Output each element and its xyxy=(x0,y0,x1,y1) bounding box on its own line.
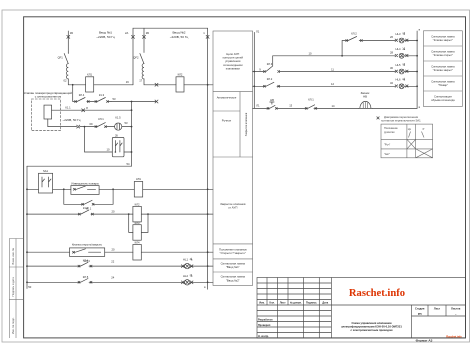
contact KL4b xyxy=(78,262,92,267)
switch SA1 box xyxy=(39,173,53,193)
svg-text:КЛ.4: КЛ.4 xyxy=(79,93,85,97)
contact KL4 xyxy=(75,98,90,103)
rung 252 xyxy=(27,251,70,253)
svg-text:К1.3: К1.3 xyxy=(99,93,105,97)
svg-text:Извещатель пожара: Извещатель пожара xyxy=(71,181,99,185)
svg-text:Разработал: Разработал xyxy=(258,318,273,321)
svg-text:53: 53 xyxy=(125,121,128,125)
svg-text:КЛ1: КЛ1 xyxy=(136,177,141,181)
wire to HL1 xyxy=(91,265,185,267)
svg-text:Raschet.info: Raschet.info xyxy=(349,288,405,299)
svg-text:Лист: Лист xyxy=(280,302,287,305)
function column dividers xyxy=(213,92,253,272)
svg-text:"Ввод №1": "Ввод №1" xyxy=(226,265,240,269)
wire KL2 to right bus xyxy=(184,84,213,86)
rung 282 lamp HL2 xyxy=(27,281,79,283)
svg-text:2Б: 2Б xyxy=(146,31,149,35)
wire to parallel coils xyxy=(93,213,132,215)
bus mid vertical xyxy=(131,102,133,167)
svg-text:Стадия: Стадия xyxy=(415,307,425,311)
svg-text:Кол.: Кол. xyxy=(270,302,276,305)
dashed valve enclosure xyxy=(31,99,60,131)
pushbutton box open-close xyxy=(70,248,105,257)
wire row1 to right bus xyxy=(143,188,213,190)
svg-text:КЛ2: КЛ2 xyxy=(135,203,140,207)
svg-text:Подпись: Подпись xyxy=(306,302,317,305)
svg-text:КЛ.2: КЛ.2 xyxy=(267,77,273,81)
terminal X input2 right xyxy=(206,35,209,38)
svg-text:32: 32 xyxy=(390,81,393,85)
wire QF2 stub xyxy=(143,28,145,52)
fire detector box xyxy=(71,186,99,195)
row D wire xyxy=(253,107,418,109)
svg-text:10: 10 xyxy=(309,52,312,56)
svg-text:Р: Р xyxy=(423,127,425,131)
svg-text:КЛ.1: КЛ.1 xyxy=(308,97,314,101)
terminal X rung126 xyxy=(77,125,80,128)
svg-text:HL5: HL5 xyxy=(396,63,401,67)
svg-text:"Открыто"/"закрыто": "Открыто"/"закрыто" xyxy=(220,251,246,255)
wire row top xyxy=(361,40,395,42)
lamp HL6 xyxy=(399,84,404,89)
svg-text:"Авт": "Авт" xyxy=(384,152,390,156)
wire row3 to right bus xyxy=(141,251,213,253)
svg-text:КЛ.1: КЛ.1 xyxy=(98,117,104,121)
svg-text:"Клапан закрыт": "Клапан закрыт" xyxy=(433,68,453,72)
svg-text:контактов переключателя SA1: контактов переключателя SA1 xyxy=(381,118,421,122)
solenoid coil YA1 xyxy=(44,105,52,119)
svg-text:Дата: Дата xyxy=(322,302,328,305)
svg-text:~220В, 50 Гц: ~220В, 50 Гц xyxy=(170,35,189,39)
parallel branch row2 xyxy=(129,214,148,232)
wire between contacts xyxy=(88,101,96,103)
self hold branch xyxy=(64,189,113,204)
terminal X QF2 xyxy=(143,35,146,38)
svg-text:SA1: SA1 xyxy=(43,169,49,173)
lamp HL1 xyxy=(185,263,190,268)
contact K1.3 xyxy=(95,98,111,103)
svg-text:10: 10 xyxy=(107,148,110,152)
svg-text:20: 20 xyxy=(112,247,115,251)
svg-text:Схема управления клапанами: Схема управления клапанами xyxy=(351,321,391,325)
svg-text:13: 13 xyxy=(289,103,292,107)
svg-text:"Ввод №2": "Ввод №2" xyxy=(226,278,240,282)
svg-text:QF1: QF1 xyxy=(58,56,64,60)
svg-text:КЛ.4: КЛ.4 xyxy=(83,259,89,263)
svg-text:HL6: HL6 xyxy=(396,78,401,82)
title block column lines xyxy=(267,278,446,339)
terminal X before KL2 xyxy=(155,83,158,86)
svg-text:Закрытие клапанов: Закрытие клапанов xyxy=(244,112,248,136)
wire HL3 to bus xyxy=(405,40,418,42)
svg-text:1Б: 1Б xyxy=(70,31,73,35)
svg-text:НВ: НВ xyxy=(270,98,274,102)
svg-text:QF2: QF2 xyxy=(133,56,139,60)
contact KL5 xyxy=(78,279,92,284)
rung 214 xyxy=(27,213,79,215)
svg-text:Raschet.info: Raschet.info xyxy=(446,334,462,338)
svg-text:26: 26 xyxy=(390,35,393,39)
rung 266 lamp HL1 xyxy=(27,265,79,267)
svg-text:№ докум.: № докум. xyxy=(290,302,302,305)
svg-text:30: 30 xyxy=(390,66,393,70)
svg-text:~220В, 50 Гц: ~220В, 50 Гц xyxy=(96,35,115,39)
pushbutton НВ xyxy=(267,102,277,109)
svg-text:Сигнальная лампа: Сигнальная лампа xyxy=(431,50,455,54)
relay coil row2b xyxy=(133,225,141,241)
svg-text:02: 02 xyxy=(64,79,67,83)
lamp HL3 xyxy=(399,38,404,43)
svg-text:Н. контр.: Н. контр. xyxy=(258,335,269,338)
X mark cell Авт xyxy=(416,149,433,158)
svg-text:09: 09 xyxy=(90,122,93,126)
wire row A xyxy=(273,55,396,57)
contact КЛ.2 row C xyxy=(253,82,280,87)
svg-text:от АУП: от АУП xyxy=(228,206,237,210)
junction dots right schematic xyxy=(253,71,255,73)
wire KL1 to bus xyxy=(94,84,133,86)
wire HL2 to bus xyxy=(190,281,213,283)
svg-text:РП: РП xyxy=(418,312,422,316)
svg-text:Ручное: Ручное xyxy=(222,118,232,122)
svg-text:"Руч": "Руч" xyxy=(384,142,390,146)
svg-text:HL1: HL1 xyxy=(183,258,188,262)
svg-text:с электромагнитом: с электромагнитом xyxy=(35,95,62,99)
terminal X input2 left xyxy=(132,35,135,38)
lamp HL2 xyxy=(185,280,190,285)
svg-text:16: 16 xyxy=(126,80,129,84)
svg-text:Изм.: Изм. xyxy=(259,302,265,305)
relay coil KL1 xyxy=(86,77,94,92)
wire rung 101 drop xyxy=(73,85,76,102)
svg-text:К1.2: К1.2 xyxy=(83,206,89,210)
svg-text:22: 22 xyxy=(111,260,114,264)
relay coil row3 xyxy=(133,245,141,261)
wire YA1 top to bus xyxy=(52,109,132,111)
contact KL1aux xyxy=(95,123,115,128)
wire input1 top stub xyxy=(67,31,69,53)
wire row C xyxy=(279,85,396,87)
terminal X below row D xyxy=(377,117,379,119)
relay coil row2a xyxy=(133,206,141,222)
svg-text:Проверил: Проверил xyxy=(258,324,271,327)
svg-text:Сигнализация: Сигнализация xyxy=(434,95,452,99)
svg-text:2К: 2К xyxy=(115,133,118,137)
svg-text:~220В, 50 Гц: ~220В, 50 Гц xyxy=(63,118,81,122)
svg-text:К1.5: К1.5 xyxy=(115,116,121,120)
wire detector to relay row1 xyxy=(99,188,134,190)
X mark cell Руч xyxy=(407,139,416,149)
svg-text:КЛ.2: КЛ.2 xyxy=(351,31,357,35)
return wire to left bus xyxy=(27,165,132,167)
left bus xyxy=(26,166,28,288)
svg-text:50: 50 xyxy=(28,285,31,289)
svg-text:28: 28 xyxy=(390,51,393,55)
svg-text:54: 54 xyxy=(127,162,130,166)
wire K1 to bus xyxy=(124,151,132,153)
svg-text:HL3: HL3 xyxy=(396,32,401,36)
lamp HL5 xyxy=(399,69,404,74)
svg-text:Кнопка открыть/закрыть: Кнопка открыть/закрыть xyxy=(72,243,103,247)
function column box xyxy=(213,31,253,285)
svg-text:"Клапан закрыт": "Клапан закрыт" xyxy=(433,38,453,42)
svg-text:КЛ1: КЛ1 xyxy=(87,72,92,76)
terminal X on wire 110 xyxy=(82,109,85,112)
SA1 diagram table xyxy=(381,124,433,158)
wire to HL2 xyxy=(91,281,185,283)
wire HL6 to bus xyxy=(405,85,418,87)
svg-text:20: 20 xyxy=(112,209,115,213)
wire K1.5 to bus xyxy=(122,126,132,128)
relay coil KL1 row1 xyxy=(134,182,142,198)
wire to contact xyxy=(80,126,96,128)
wire drop to K1 row xyxy=(85,127,113,152)
contact КЛ.3 marks xyxy=(263,71,279,73)
svg-text:17: 17 xyxy=(139,79,142,83)
svg-text:HL2: HL2 xyxy=(183,274,188,278)
breaker QF2 xyxy=(140,54,144,64)
junction dots left schematic xyxy=(72,84,74,86)
contact K1.2 xyxy=(78,210,93,215)
right annotation boxes xyxy=(424,31,463,107)
contact KL1 self-hold xyxy=(82,200,95,205)
coil L2 input2 xyxy=(142,64,144,79)
svg-text:Автоматическое: Автоматическое xyxy=(217,96,237,100)
right bus xyxy=(416,31,418,108)
svg-text:Положение: Положение xyxy=(384,126,398,130)
bus Л1 xyxy=(253,32,255,108)
svg-text:11: 11 xyxy=(331,67,334,71)
wire button to coil row3 xyxy=(105,251,133,253)
svg-text:Формат А3: Формат А3 xyxy=(416,338,433,342)
svg-text:HL4: HL4 xyxy=(396,47,401,51)
wire row2 to right bus xyxy=(141,213,213,215)
relay coil KL2 xyxy=(176,77,184,92)
row B contact КЛ.3 riser to row A xyxy=(264,56,272,72)
wire YA1 bottom to rung 126.6 xyxy=(48,119,77,127)
contact КЛ.2 top xyxy=(346,37,363,42)
svg-text:14: 14 xyxy=(332,104,335,108)
svg-text:"Пожар": "Пожар" xyxy=(438,83,448,87)
svg-text:Листов: Листов xyxy=(451,307,461,311)
svg-text:Подпись и дата: Подпись и дата xyxy=(11,277,15,297)
header position symbols xyxy=(409,132,425,138)
coil L1 input1 xyxy=(66,64,68,79)
svg-text:КЛ.3: КЛ.3 xyxy=(267,62,273,66)
svg-text:53: 53 xyxy=(113,97,116,101)
wire HL1 to bus xyxy=(190,265,213,267)
svg-text:КЛ4: КЛ4 xyxy=(135,241,140,245)
breaker QF1 xyxy=(64,53,68,64)
wire SA1 to detector xyxy=(53,188,71,190)
wire input2 top loop xyxy=(133,28,208,289)
lamp HL4 xyxy=(399,53,404,58)
svg-text:Л1: Л1 xyxy=(256,30,260,34)
svg-text:2А: 2А xyxy=(125,31,128,35)
svg-text:Сигнальная лампа: Сигнальная лампа xyxy=(431,35,455,39)
svg-text:с электромагнитным приводом: с электромагнитным приводом xyxy=(351,329,393,332)
branch to row top xyxy=(342,41,347,56)
svg-text:12: 12 xyxy=(331,82,334,86)
bell Звонок xyxy=(358,101,372,108)
svg-text:Сигнальная лампа: Сигнальная лампа xyxy=(431,65,455,69)
wire rung101 to bus xyxy=(111,100,158,103)
svg-text:Сигнальная лампа: Сигнальная лампа xyxy=(431,80,455,84)
wire HL5 to bus xyxy=(405,71,418,73)
svg-text:КЛ3: КЛ3 xyxy=(135,221,140,225)
svg-text:электрифицированными КЭН-50-0,: электрифицированными КЭН-50-0,16-ЭМ7221 xyxy=(341,324,402,328)
wire input1 to rung xyxy=(68,79,85,85)
svg-text:24: 24 xyxy=(111,276,114,280)
contact КЛ.1 row D xyxy=(305,105,317,110)
terminal X input1 xyxy=(67,35,70,38)
svg-text:обрыва соленоида: обрыва соленоида xyxy=(431,98,455,102)
title block outline xyxy=(257,278,466,339)
title block revision rows xyxy=(257,283,466,333)
svg-text:Взам. инв. №: Взам. инв. № xyxy=(11,248,15,265)
svg-text:Л1: Л1 xyxy=(256,103,260,107)
rung SA1 xyxy=(27,188,39,190)
lamp-device K1.5 xyxy=(115,123,122,130)
wire QF2 to rung xyxy=(144,79,176,85)
svg-text:"Клапан открыт": "Клапан открыт" xyxy=(433,53,453,57)
svg-text:К1.1: К1.1 xyxy=(65,106,71,110)
device K1 box xyxy=(112,137,124,156)
svg-text:Лист: Лист xyxy=(434,307,441,311)
svg-text:КЛ.5: КЛ.5 xyxy=(83,275,89,279)
svg-text:КЛ2: КЛ2 xyxy=(178,72,183,76)
svg-text:рукоятки: рукоятки xyxy=(384,131,395,134)
svg-text:Инв. № подл.: Инв. № подл. xyxy=(11,317,15,334)
wire HL4 to bus xyxy=(405,55,418,57)
svg-text:клапанами: клапанами xyxy=(226,66,241,70)
left margin column lines xyxy=(9,239,23,339)
wire row B xyxy=(253,71,396,73)
svg-text:НВ: НВ xyxy=(363,94,367,98)
